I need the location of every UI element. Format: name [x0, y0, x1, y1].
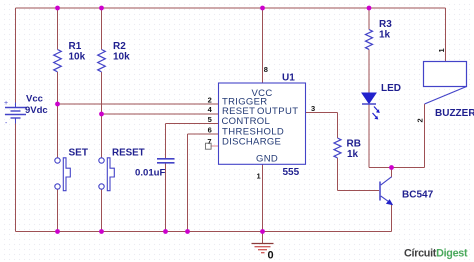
- wire left battery column top: [15, 8, 17, 108]
- wire pin7 stub: [211, 145, 219, 147]
- svg-text:R2: R2: [113, 41, 126, 52]
- svg-text:0: 0: [268, 250, 274, 262]
- svg-text:10k: 10k: [113, 52, 130, 63]
- op-amp U1 555 timer box: [219, 83, 306, 164]
- wire capacitor column upper: [165, 124, 167, 159]
- svg-text:1: 1: [437, 48, 446, 52]
- wire pin1 gnd stub: [262, 164, 264, 231]
- svg-text:2: 2: [208, 95, 212, 104]
- svg-text:1k: 1k: [379, 30, 391, 41]
- svg-text:CírcuitDigest: CírcuitDigest: [404, 248, 468, 260]
- wire buzzer pin2 column: [424, 104, 426, 168]
- junction node dots: [55, 6, 394, 234]
- wire LED cathode down: [368, 104, 370, 168]
- svg-text:0.01uF: 0.01uF: [135, 168, 166, 179]
- svg-text:+: +: [4, 100, 8, 107]
- svg-text:3: 3: [311, 104, 315, 113]
- wire emitter to bottom rail: [391, 204, 393, 232]
- capacitor C1: [157, 159, 175, 163]
- svg-text:10k: 10k: [69, 52, 86, 63]
- wire buzzer pin1 column: [445, 8, 447, 62]
- svg-text:1k: 1k: [347, 149, 359, 160]
- svg-text:1: 1: [257, 172, 261, 181]
- wire capacitor column lower: [165, 164, 167, 232]
- wire left battery column bottom: [15, 118, 17, 232]
- svg-text:-: -: [5, 120, 8, 127]
- wire LED node row: [369, 167, 425, 169]
- svg-text:8: 8: [264, 65, 268, 74]
- wire R3 to LED: [368, 49, 370, 93]
- resistor R3: [366, 30, 373, 50]
- wire R1 column upper: [57, 8, 59, 50]
- wire R3 column upper: [368, 8, 370, 30]
- node threshold bottom: [185, 229, 190, 234]
- node R3 top: [367, 6, 372, 11]
- wire RB to base row: [337, 158, 339, 191]
- svg-text:U1: U1: [282, 73, 295, 84]
- pushbutton RESET: [99, 158, 115, 191]
- LED D1: [362, 93, 380, 120]
- wire R2 to RESET switch: [101, 72, 103, 158]
- node R1 top: [55, 6, 60, 11]
- svg-text:RESET: RESET: [112, 148, 145, 159]
- node R2 top: [99, 6, 104, 11]
- wire R1 to SET switch: [57, 72, 59, 158]
- svg-text:SET: SET: [69, 148, 88, 159]
- wire pin8 vcc stub: [262, 8, 264, 83]
- resistor R1: [54, 50, 62, 72]
- transistor Q1 BC547: [380, 177, 393, 206]
- resistor RB: [334, 138, 341, 158]
- svg-text:R3: R3: [379, 19, 392, 30]
- svg-text:LED: LED: [381, 83, 401, 94]
- wire pin6 column to bottom rail: [187, 134, 189, 232]
- svg-text:555: 555: [283, 167, 300, 178]
- svg-text:BUZZER1: BUZZER1: [435, 108, 474, 119]
- pushbutton SET: [55, 158, 71, 191]
- wire top rail: [16, 7, 446, 9]
- buzzer LS1: [424, 62, 467, 105]
- wire R2 column upper: [101, 8, 103, 50]
- wire collector stub: [391, 168, 393, 178]
- wire pin3 to RB: [337, 113, 339, 139]
- node collector: [389, 165, 394, 170]
- svg-text:GND: GND: [256, 154, 278, 165]
- node pin8 top: [260, 6, 265, 11]
- battery V1 Vcc 9Vdc: [5, 103, 26, 124]
- pin 7 unconnected square: [206, 143, 212, 149]
- node RESET bottom: [99, 229, 104, 234]
- node ground: [260, 229, 265, 234]
- node reset R2: [99, 112, 104, 117]
- node SET bottom: [55, 229, 60, 234]
- svg-text:9Vdc: 9Vdc: [25, 105, 48, 116]
- ground 0 symbol: [252, 244, 274, 253]
- wire bottom rail: [16, 231, 392, 233]
- node trigger R1: [55, 102, 60, 107]
- svg-text:2: 2: [416, 118, 425, 122]
- wire pin3 output row: [306, 112, 338, 114]
- wire pin4 reset row: [102, 113, 219, 115]
- wire RESET switch to bottom rail: [101, 189, 103, 231]
- wire SET switch to bottom rail: [57, 189, 59, 231]
- wire ground stub: [262, 232, 264, 244]
- node capacitor bottom: [163, 229, 168, 234]
- svg-text:5: 5: [208, 115, 212, 124]
- svg-text:6: 6: [208, 126, 212, 135]
- svg-text:RB: RB: [347, 139, 361, 150]
- resistor R2: [98, 50, 106, 72]
- wire pin2 trigger row: [58, 103, 219, 105]
- svg-text:R1: R1: [69, 41, 82, 52]
- svg-text:Vcc: Vcc: [26, 94, 43, 105]
- svg-text:4: 4: [208, 105, 213, 114]
- svg-text:BC547: BC547: [402, 190, 434, 201]
- wire pin6 threshold row: [188, 133, 219, 135]
- wire base row: [338, 190, 380, 192]
- wire pin5 control row: [166, 123, 219, 125]
- svg-text:DISCHARGE: DISCHARGE: [222, 137, 281, 148]
